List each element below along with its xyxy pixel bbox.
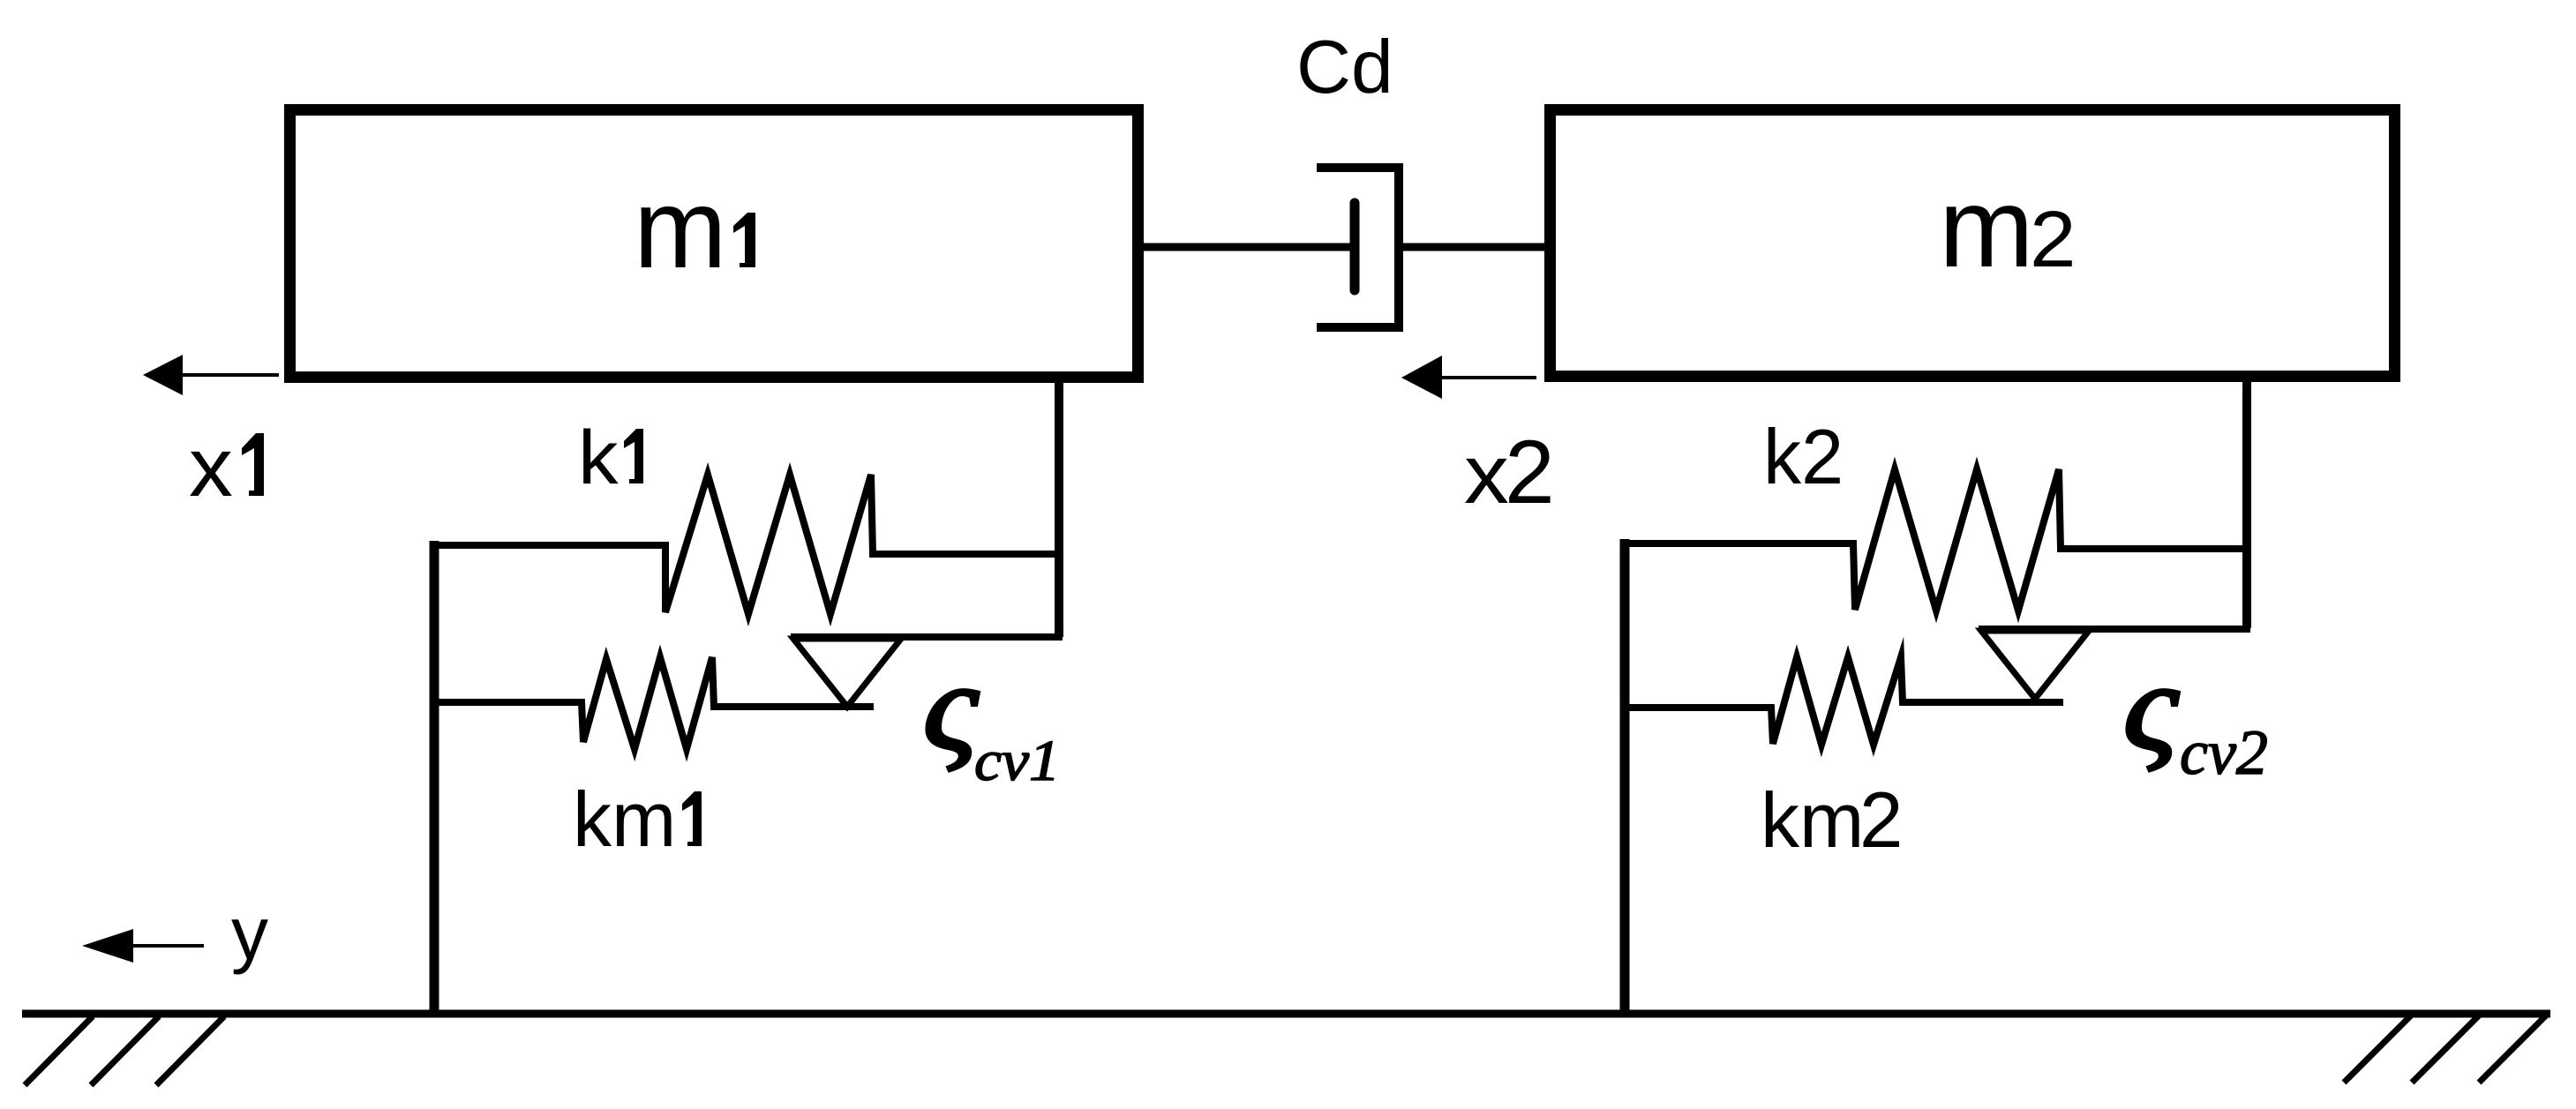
- svg-text:km: km: [1761, 776, 1864, 864]
- label x2: [1464, 427, 1509, 521]
- arrow x2: [1438, 376, 1536, 379]
- friction line zeta-cv2: [1979, 626, 2250, 633]
- friction line zeta-cv1: [791, 633, 1063, 641]
- label y: [231, 892, 268, 975]
- label m2: [1939, 166, 2034, 291]
- label k1: [578, 415, 619, 499]
- svg-text:cv2: cv2: [2180, 717, 2268, 788]
- svg-text:Cd: Cd: [1296, 26, 1393, 109]
- svg-text:k: k: [578, 415, 619, 499]
- svg-text:m: m: [1939, 166, 2034, 291]
- wire from m2 bottom: [2242, 379, 2251, 628]
- ground line: [22, 1010, 2550, 1018]
- label zeta-cv2: [2123, 637, 2179, 776]
- spring k1: [436, 475, 1057, 614]
- svg-text:2: 2: [2030, 194, 2077, 283]
- svg-text:km: km: [573, 776, 676, 863]
- label Cd: [1296, 26, 1393, 109]
- svg-text:ς: ς: [2123, 637, 2179, 776]
- svg-text:m: m: [634, 165, 727, 291]
- wire left riser (left assembly): [430, 541, 439, 1014]
- svg-text:k2: k2: [1763, 414, 1844, 500]
- ground hatch left 3: [156, 1016, 224, 1085]
- svg-text:2: 2: [1859, 776, 1904, 864]
- spring k2: [1625, 469, 2245, 611]
- spring km1: [436, 657, 874, 749]
- wire left riser (right assembly): [1620, 539, 1630, 1014]
- svg-text:cv1: cv1: [974, 728, 1060, 793]
- label k2: [1763, 414, 1844, 500]
- arrow x1: [176, 373, 279, 377]
- label km2: [1761, 776, 1864, 864]
- ground hatch right 3: [2479, 1015, 2547, 1083]
- mass m1: [290, 110, 1138, 378]
- spring km2: [1625, 657, 2063, 745]
- label m1: [634, 165, 727, 291]
- arrow y: [128, 944, 204, 948]
- label zeta-cv1: [923, 637, 979, 776]
- wire damper to m2: [1399, 244, 1544, 251]
- wire from m1 bottom: [1055, 379, 1063, 637]
- wire m1 to damper piston rod: [1144, 244, 1356, 251]
- friction triangle zeta-cv1: [793, 639, 901, 707]
- damper Cd piston: [1350, 203, 1360, 290]
- svg-text:x: x: [189, 420, 233, 513]
- ground hatch left 2: [91, 1016, 159, 1085]
- mass m2: [1551, 110, 2395, 377]
- friction triangle zeta-cv2: [1981, 631, 2089, 699]
- svg-text:x: x: [1464, 427, 1509, 521]
- ground hatch right 2: [2412, 1015, 2480, 1083]
- svg-text:ς: ς: [923, 637, 979, 776]
- label km1: [573, 776, 676, 863]
- damper Cd cylinder: [1317, 168, 1399, 327]
- label x1: [189, 420, 233, 513]
- svg-text:y: y: [231, 892, 268, 975]
- svg-text:2: 2: [1505, 422, 1555, 522]
- ground hatch left 1: [25, 1016, 93, 1085]
- ground hatch right 1: [2344, 1015, 2412, 1083]
